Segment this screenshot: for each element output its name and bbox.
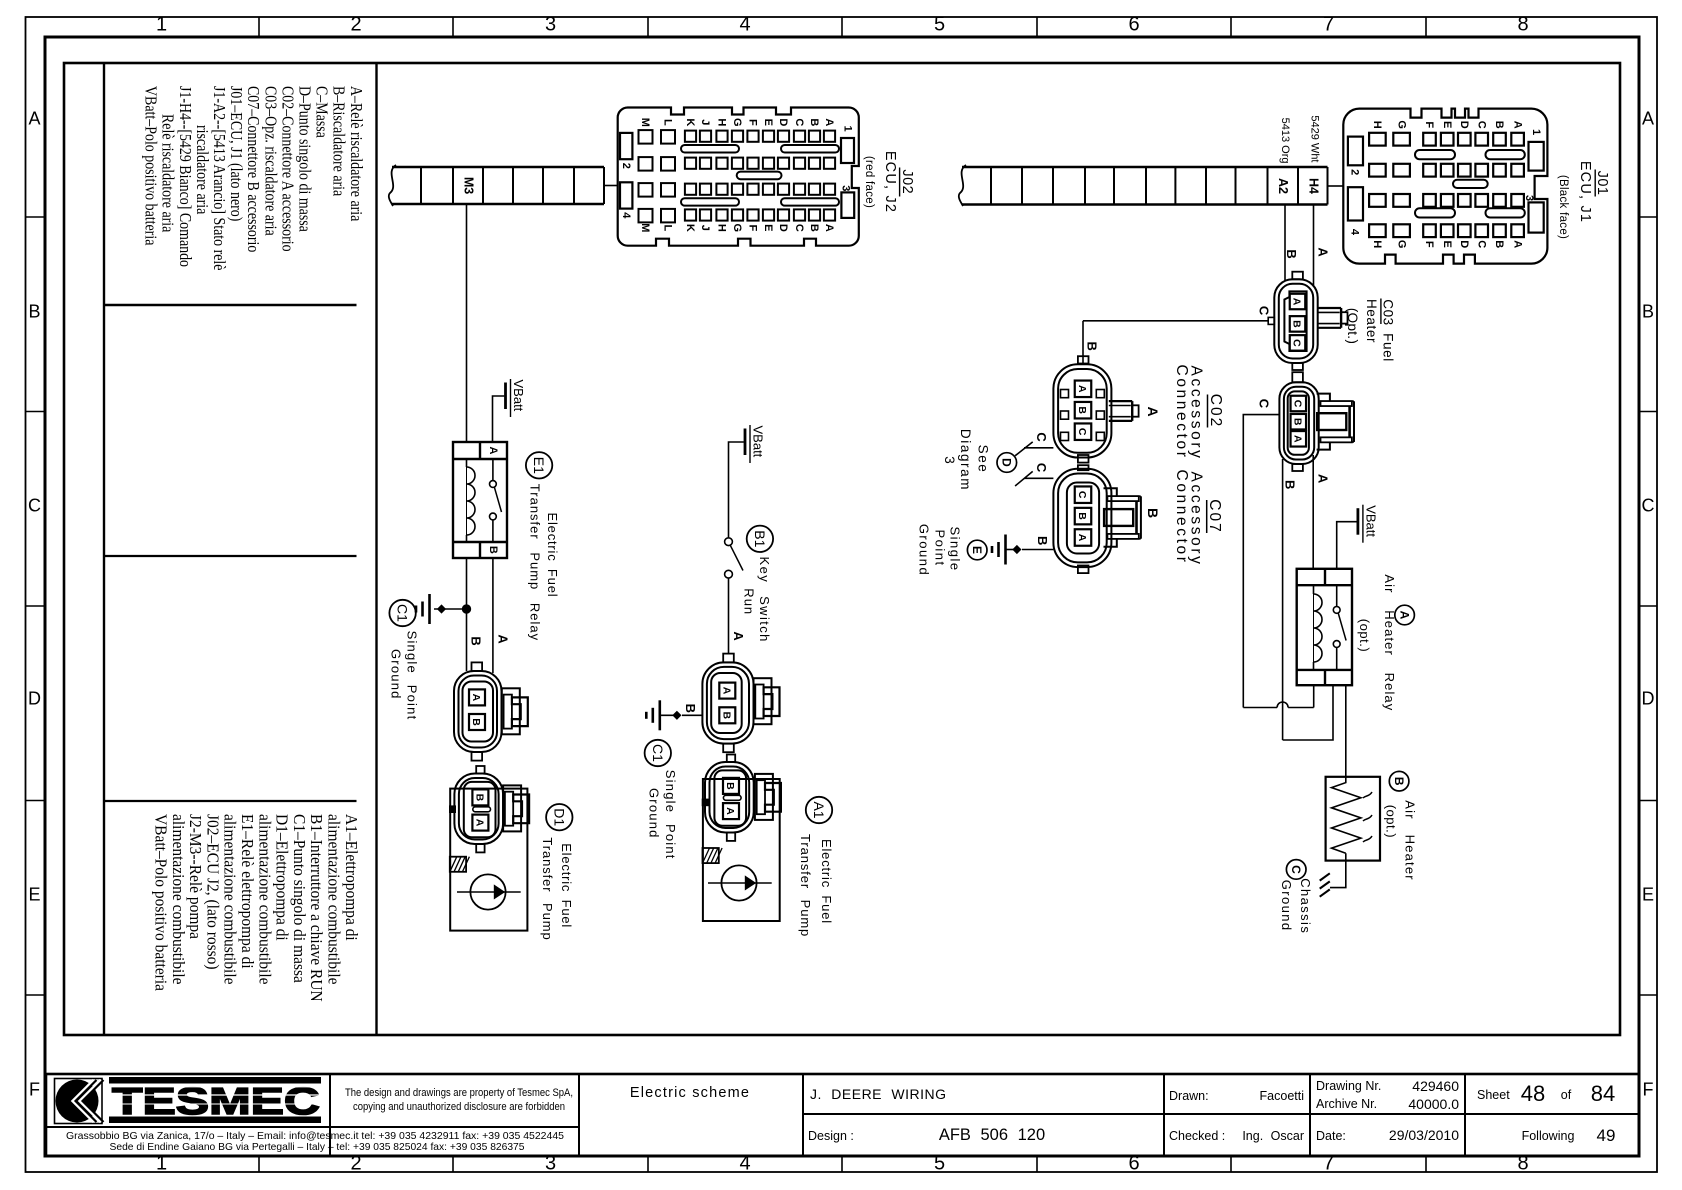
svg-text:Electric Fuel: Electric Fuel	[559, 843, 574, 928]
svg-text:G: G	[1395, 240, 1407, 249]
svg-text:F: F	[747, 224, 759, 231]
latch of key switch connector	[754, 678, 772, 724]
pin A of A1	[723, 803, 739, 819]
svg-text:3: 3	[545, 14, 556, 36]
junction diamond E	[1012, 545, 1021, 554]
latch of C02	[1109, 400, 1132, 402]
svg-text:B: B	[1283, 480, 1298, 489]
svg-text:Drawn:: Drawn:	[1169, 1089, 1209, 1103]
svg-text:J01–ECU, J1 (lato nero): J01–ECU, J1 (lato nero)	[227, 86, 246, 221]
pump body A1	[703, 779, 780, 921]
svg-text:8: 8	[1517, 14, 1528, 36]
svg-text:2: 2	[350, 14, 361, 36]
schematic area box	[64, 63, 1620, 1035]
svg-text:A: A	[1291, 298, 1303, 306]
svg-text:Electric scheme: Electric scheme	[630, 1085, 750, 1101]
connector key switch harness side	[702, 654, 753, 753]
svg-text:A: A	[1642, 109, 1654, 129]
relay air heater	[1297, 569, 1352, 685]
row grid ticks left	[26, 216, 45, 218]
svg-text:M: M	[639, 223, 651, 232]
svg-text:B: B	[1076, 512, 1088, 520]
svg-text:3: 3	[840, 185, 852, 191]
svg-text:B1: B1	[752, 530, 768, 547]
svg-text:B: B	[1284, 249, 1299, 258]
svg-text:Following: Following	[1522, 1129, 1575, 1143]
connector J01	[1343, 109, 1547, 264]
wire stub band to J02	[604, 185, 618, 187]
pin A of C02	[1075, 381, 1092, 398]
latch of C03 heater side	[1317, 394, 1330, 401]
svg-text:J: J	[699, 225, 711, 231]
svg-text:Ground: Ground	[647, 788, 662, 839]
svg-text:H: H	[716, 118, 728, 126]
svg-text:A: A	[1076, 385, 1088, 393]
svg-text:J02–ECU J2, (lato rosso): J02–ECU J2, (lato rosso)	[203, 814, 222, 970]
svg-text:F: F	[1423, 121, 1435, 128]
svg-text:J: J	[699, 119, 711, 125]
relay E1	[453, 442, 507, 558]
svg-text:Archive Nr.: Archive Nr.	[1316, 1097, 1377, 1111]
connector C03 harness side	[1274, 272, 1317, 370]
svg-text:alimentazione combustibile: alimentazione combustibile	[255, 814, 274, 985]
svg-text:B: B	[683, 704, 698, 713]
pump symbol D1	[457, 874, 521, 909]
svg-text:C: C	[1256, 399, 1271, 409]
svg-text:(opt.): (opt.)	[1357, 619, 1372, 652]
label B air heater	[1383, 771, 1417, 880]
svg-text:Ing. Oscar: Ing. Oscar	[1242, 1129, 1304, 1143]
svg-text:A1–Elettropompa di: A1–Elettropompa di	[342, 814, 361, 941]
svg-text:C: C	[1076, 428, 1088, 436]
svg-text:H: H	[716, 224, 728, 232]
wire to single point ground C1 b	[682, 714, 702, 716]
wire key switch to connector	[728, 578, 730, 654]
svg-text:AFB 506 120: AFB 506 120	[939, 1126, 1045, 1144]
svg-text:alimentazione combustibile: alimentazione combustibile	[221, 814, 240, 985]
svg-text:C: C	[793, 118, 805, 126]
svg-text:2: 2	[1348, 169, 1360, 175]
label D see diagram 3	[942, 429, 1017, 491]
latch of A1 connector	[755, 774, 773, 820]
svg-text:Transfer Pump Relay: Transfer Pump Relay	[528, 484, 543, 641]
svg-text:D: D	[1458, 240, 1470, 248]
ground symbol C1 b	[658, 700, 661, 730]
label C07 Accessory Connector	[1173, 470, 1223, 567]
svg-text:A: A	[1292, 435, 1304, 443]
title block frame	[46, 1074, 1639, 1156]
pin B of C03	[1290, 316, 1306, 332]
svg-text:F: F	[747, 119, 759, 126]
svg-text:C02: C02	[1207, 394, 1224, 428]
svg-text:E: E	[762, 224, 774, 231]
svg-text:H4: H4	[1306, 178, 1320, 194]
svg-text:A: A	[470, 694, 482, 702]
svg-text:Electric Fuel: Electric Fuel	[545, 513, 560, 598]
svg-text:B: B	[1493, 240, 1505, 248]
svg-text:Facoetti: Facoetti	[1260, 1089, 1304, 1103]
VBatt supply air heater relay	[1337, 505, 1379, 569]
latch of C03	[1318, 307, 1341, 309]
svg-text:40000.0: 40000.0	[1408, 1096, 1459, 1112]
svg-text:VBatt: VBatt	[511, 380, 526, 412]
svg-text:2: 2	[620, 163, 632, 169]
label J01	[1557, 161, 1610, 239]
svg-text:C: C	[1291, 339, 1303, 347]
svg-text:1: 1	[156, 14, 167, 36]
label C1 single point ground	[389, 600, 420, 721]
svg-text:Ground: Ground	[389, 649, 404, 700]
legend divider 2	[104, 555, 357, 557]
pin A of pump connector	[469, 689, 485, 705]
svg-text:B: B	[1145, 508, 1161, 518]
svg-text:Checked :: Checked :	[1169, 1129, 1225, 1143]
svg-text:6: 6	[1128, 14, 1139, 36]
wire net B from C03	[1282, 459, 1284, 740]
wire net B to relay switch	[1283, 685, 1333, 740]
svg-text:A: A	[1076, 534, 1088, 542]
wire net A from H4	[1313, 205, 1315, 287]
wire net C to relay coil	[1243, 685, 1313, 707]
svg-text:B: B	[1292, 418, 1304, 426]
svg-text:alimentazione combustibile: alimentazione combustibile	[324, 814, 343, 985]
svg-text:Drawing Nr.: Drawing Nr.	[1316, 1079, 1381, 1093]
legend divider 3	[104, 800, 357, 802]
label D1 electric fuel transfer pump	[540, 804, 574, 941]
label C1 single point ground b	[645, 740, 678, 860]
svg-text:M: M	[639, 118, 651, 127]
junction diamond C1	[437, 604, 446, 613]
svg-text:C03 Fuel: C03 Fuel	[1380, 299, 1395, 362]
svg-text:G: G	[731, 118, 743, 127]
wire net B from A2	[1284, 205, 1286, 282]
column grid ticks top	[258, 17, 260, 37]
pin A of C07	[1075, 529, 1092, 546]
VBatt supply E1	[493, 379, 526, 442]
label C chassis ground	[1279, 860, 1313, 935]
svg-text:5: 5	[934, 14, 945, 36]
svg-text:3: 3	[1523, 195, 1535, 201]
svg-text:A: A	[28, 109, 40, 129]
pin B of D1	[472, 789, 488, 805]
svg-text:B–Riscaldatore aria: B–Riscaldatore aria	[329, 86, 348, 196]
svg-text:B: B	[487, 546, 499, 554]
svg-text:E: E	[970, 546, 984, 554]
svg-text:E: E	[28, 885, 40, 905]
svg-text:Chassis: Chassis	[1298, 878, 1313, 934]
ground symbol C1	[428, 594, 431, 624]
svg-text:C: C	[1475, 121, 1487, 129]
svg-text:B: B	[28, 302, 40, 322]
svg-text:A1: A1	[811, 801, 827, 818]
latch of pump connector	[502, 688, 520, 734]
svg-text:D–Punto singolo di massa: D–Punto singolo di massa	[295, 86, 314, 232]
key slot D1	[473, 807, 491, 812]
svg-text:C: C	[1076, 491, 1088, 499]
hatch mark A1	[703, 848, 723, 863]
svg-text:C02–Connettore A accessorio: C02–Connettore A accessorio	[278, 86, 297, 252]
svg-text:D: D	[1458, 121, 1470, 129]
wire net A from C03	[1312, 455, 1314, 569]
svg-text:Connector: Connector	[1173, 470, 1190, 565]
svg-text:D: D	[777, 118, 789, 126]
wire to single point ground C1	[434, 608, 467, 610]
pin B of A1	[723, 778, 739, 794]
svg-text:C03–Opz. riscaldatore aria: C03–Opz. riscaldatore aria	[261, 86, 280, 236]
pin C of C03 heater side	[1291, 396, 1307, 412]
svg-text:Date:: Date:	[1316, 1129, 1346, 1143]
svg-text:4: 4	[620, 212, 632, 219]
svg-text:F: F	[1643, 1080, 1654, 1100]
svg-text:C: C	[1289, 865, 1303, 874]
svg-text:Run: Run	[741, 588, 756, 615]
svg-text:B1–Interruttore a chiave RUN: B1–Interruttore a chiave RUN	[307, 814, 326, 1002]
svg-text:Single: Single	[948, 526, 963, 571]
svg-text:(Black face): (Black face)	[1557, 175, 1569, 239]
pin A of key switch connector	[719, 683, 735, 699]
svg-text:E1: E1	[531, 457, 547, 474]
connector C03 heater side	[1279, 372, 1318, 471]
pump symbol A1	[708, 865, 772, 900]
svg-text:VBatt–Polo positivo batteria: VBatt–Polo positivo batteria	[141, 86, 160, 245]
svg-text:VBatt–Polo positivo batteria: VBatt–Polo positivo batteria	[151, 814, 170, 991]
svg-text:G: G	[1395, 120, 1407, 129]
svg-text:riscaldatore aria: riscaldatore aria	[193, 125, 212, 214]
svg-text:C: C	[28, 496, 41, 516]
svg-text:C: C	[1256, 306, 1271, 316]
svg-text:Single Point: Single Point	[663, 770, 678, 860]
wire E1 coil to connector	[466, 558, 468, 671]
svg-text:C07: C07	[1206, 499, 1223, 533]
svg-text:Air Heater Relay: Air Heater Relay	[1382, 574, 1397, 711]
svg-text:C07–Connettore B accessorio: C07–Connettore B accessorio	[244, 86, 263, 253]
svg-text:J1-A2--[5413 Arancio] Stato re: J1-A2--[5413 Arancio] Stato relè	[210, 86, 229, 271]
wire C07 to single point ground E	[1022, 549, 1053, 551]
svg-text:VBatt: VBatt	[1363, 505, 1378, 537]
svg-text:copying and unauthorized discl: copying and unauthorized disclosure are …	[353, 1101, 565, 1113]
svg-text:K: K	[684, 118, 696, 126]
svg-text:Sede di Endine Gaiano BG via P: Sede di Endine Gaiano BG via Pertegalli …	[110, 1141, 525, 1153]
svg-text:B: B	[474, 794, 486, 802]
ground symbol E	[1004, 535, 1007, 565]
svg-text:K: K	[684, 224, 696, 232]
svg-text:alimentazione combustibile: alimentazione combustibile	[169, 814, 188, 985]
svg-text:48: 48	[1521, 1081, 1545, 1106]
junction diamond C1 b	[672, 711, 681, 720]
svg-text:Air Heater: Air Heater	[1403, 800, 1418, 881]
connector fuel pump D1 side	[449, 766, 503, 852]
svg-text:D1–Elettropompa di: D1–Elettropompa di	[272, 814, 291, 941]
svg-text:E: E	[762, 119, 774, 126]
connector fuel pump A1 side	[702, 755, 754, 841]
connector J02	[618, 108, 859, 246]
svg-text:C1: C1	[395, 604, 411, 622]
pin B of C02	[1075, 402, 1092, 419]
svg-text:A: A	[1316, 247, 1331, 257]
svg-text:B: B	[1076, 406, 1088, 414]
svg-text:A: A	[474, 819, 486, 827]
svg-text:F: F	[29, 1080, 40, 1100]
wire air heater to chassis ground	[1330, 853, 1346, 887]
svg-text:B: B	[721, 712, 733, 720]
svg-text:A: A	[823, 224, 835, 232]
junction dot	[462, 605, 470, 613]
pin B of C03 heater side	[1291, 414, 1307, 430]
svg-text:49: 49	[1597, 1126, 1616, 1145]
pump body D1	[450, 789, 527, 931]
legend box left edge	[103, 63, 105, 1035]
svg-text:E1–Relè elettropompa di: E1–Relè elettropompa di	[238, 814, 257, 969]
svg-text:J2-M3--Relè pompa: J2-M3--Relè pompa	[186, 814, 205, 939]
svg-text:C: C	[1034, 432, 1049, 442]
svg-text:B: B	[1291, 320, 1303, 328]
label A air heater relay	[1357, 574, 1414, 711]
svg-text:L: L	[662, 224, 674, 231]
hatch mark D1	[450, 857, 470, 872]
svg-text:B: B	[470, 718, 482, 726]
svg-text:C1–Punto singolo di massa: C1–Punto singolo di massa	[290, 814, 309, 983]
row grid ticks right	[1639, 216, 1657, 218]
svg-text:E: E	[1642, 885, 1654, 905]
svg-text:C: C	[793, 224, 805, 232]
harness band J02 side	[389, 165, 604, 206]
svg-text:C–Massa: C–Massa	[312, 86, 331, 138]
wire C07 pin C off-page	[1015, 471, 1053, 486]
svg-text:B: B	[1642, 302, 1654, 322]
svg-text:ECU, J1: ECU, J1	[1577, 161, 1593, 223]
svg-text:84: 84	[1591, 1081, 1615, 1106]
svg-text:Transfer Pump: Transfer Pump	[540, 837, 555, 940]
svg-text:J1-H4--[5429 Bianco] Comando: J1-H4--[5429 Bianco] Comando	[175, 86, 194, 267]
Tesmec logo emblem	[55, 1079, 103, 1124]
svg-text:A: A	[721, 687, 733, 695]
svg-text:Ground: Ground	[917, 524, 932, 576]
svg-text:L: L	[662, 119, 674, 126]
svg-text:A: A	[1511, 240, 1523, 248]
svg-text:The design and drawings are pr: The design and drawings are property of …	[345, 1087, 573, 1099]
svg-text:C: C	[1292, 400, 1304, 408]
svg-text:E: E	[1441, 121, 1453, 128]
svg-text:D: D	[777, 224, 789, 232]
pin A of D1	[472, 815, 488, 831]
svg-text:J02: J02	[899, 169, 915, 194]
label A1 electric fuel transfer pump	[798, 797, 834, 937]
svg-text:3: 3	[942, 456, 957, 464]
svg-text:M3: M3	[461, 177, 475, 194]
legend box right edge	[375, 63, 377, 1035]
svg-text:See: See	[975, 445, 990, 474]
svg-text:C1: C1	[650, 744, 666, 762]
svg-text:Connector: Connector	[1173, 365, 1190, 460]
legend divider 1	[104, 304, 357, 307]
svg-text:A2: A2	[1276, 178, 1290, 194]
svg-text:(Opt.): (Opt.)	[1345, 308, 1360, 344]
svg-text:Diagram: Diagram	[958, 429, 973, 491]
wire E1 switch to connector	[492, 558, 494, 673]
svg-text:1: 1	[1530, 129, 1542, 135]
svg-text:ECU, J2: ECU, J2	[882, 151, 898, 213]
svg-text:Transfer Pump: Transfer Pump	[798, 834, 813, 937]
chassis ground	[1320, 873, 1330, 896]
svg-text:A: A	[487, 447, 499, 455]
svg-text:A: A	[1145, 406, 1161, 416]
svg-text:G: G	[731, 224, 743, 233]
svg-text:A: A	[1397, 611, 1411, 620]
connector C02	[1053, 356, 1111, 462]
wire relay to air heater	[1345, 685, 1347, 777]
svg-text:A–Relè riscaldatore aria: A–Relè riscaldatore aria	[346, 86, 365, 221]
svg-text:A: A	[731, 631, 746, 641]
pin A of C03	[1290, 294, 1306, 310]
wire M3 to relay E1	[466, 204, 468, 442]
svg-text:Key Switch: Key Switch	[757, 557, 772, 643]
svg-text:429460: 429460	[1412, 1078, 1459, 1094]
svg-text:J. DEERE WIRING: J. DEERE WIRING	[810, 1086, 947, 1102]
svg-text:B: B	[724, 782, 736, 790]
svg-text:B: B	[1392, 777, 1406, 786]
svg-text:29/03/2010: 29/03/2010	[1389, 1127, 1459, 1143]
connector fuel pump harness side	[454, 662, 502, 760]
svg-text:1: 1	[842, 125, 854, 131]
svg-text:B: B	[1084, 342, 1099, 351]
svg-text:B: B	[469, 636, 484, 645]
svg-text:Design :: Design :	[808, 1129, 854, 1143]
svg-text:C: C	[1034, 463, 1049, 473]
svg-text:of: of	[1561, 1088, 1572, 1102]
pin B of C07	[1075, 508, 1092, 524]
svg-text:D: D	[999, 458, 1013, 467]
Tesmec logo wordmark	[109, 1077, 321, 1084]
svg-text:Ground: Ground	[1279, 880, 1294, 932]
svg-text:J01: J01	[1594, 171, 1610, 196]
svg-text:VBatt: VBatt	[750, 426, 765, 458]
latch of D1 connector	[503, 785, 521, 831]
label J02	[863, 151, 915, 213]
label E1 electric fuel transfer pump relay	[526, 452, 560, 641]
harness band J01 side	[959, 165, 1328, 206]
svg-text:D1: D1	[551, 808, 567, 826]
svg-text:(red face): (red face)	[863, 156, 875, 208]
svg-text:H: H	[1371, 240, 1383, 248]
svg-text:D: D	[28, 689, 41, 709]
svg-text:Relè riscaldatore aria: Relè riscaldatore aria	[158, 114, 177, 232]
label C03 Fuel Heater	[1345, 299, 1396, 362]
wire net from C02 to C03	[1082, 321, 1084, 363]
pin C of C02	[1075, 423, 1092, 440]
svg-text:A: A	[1315, 474, 1330, 484]
pin B of key switch connector	[719, 707, 735, 723]
svg-text:Point: Point	[933, 529, 948, 566]
svg-text:B: B	[808, 224, 820, 232]
switch B1 key switch	[725, 538, 743, 578]
VBatt supply key switch	[729, 425, 766, 537]
svg-text:7: 7	[1323, 14, 1334, 36]
svg-text:C: C	[1642, 496, 1655, 516]
svg-text:A: A	[496, 634, 511, 644]
wire net C to C03 upper	[1083, 317, 1274, 324]
svg-text:5413 Org: 5413 Org	[1279, 118, 1291, 164]
svg-text:A: A	[1511, 121, 1523, 129]
svg-text:Electric Fuel: Electric Fuel	[819, 839, 834, 924]
svg-text:B: B	[808, 118, 820, 126]
column grid ticks bottom	[258, 1156, 260, 1172]
label C02 Accessory Connector	[1173, 365, 1224, 461]
svg-text:(opt.): (opt.)	[1383, 805, 1398, 838]
svg-text:C: C	[1475, 240, 1487, 248]
wire stub band to J01	[1328, 185, 1344, 187]
svg-text:4: 4	[1348, 229, 1360, 236]
svg-text:5429 Wht: 5429 Wht	[1308, 115, 1320, 162]
